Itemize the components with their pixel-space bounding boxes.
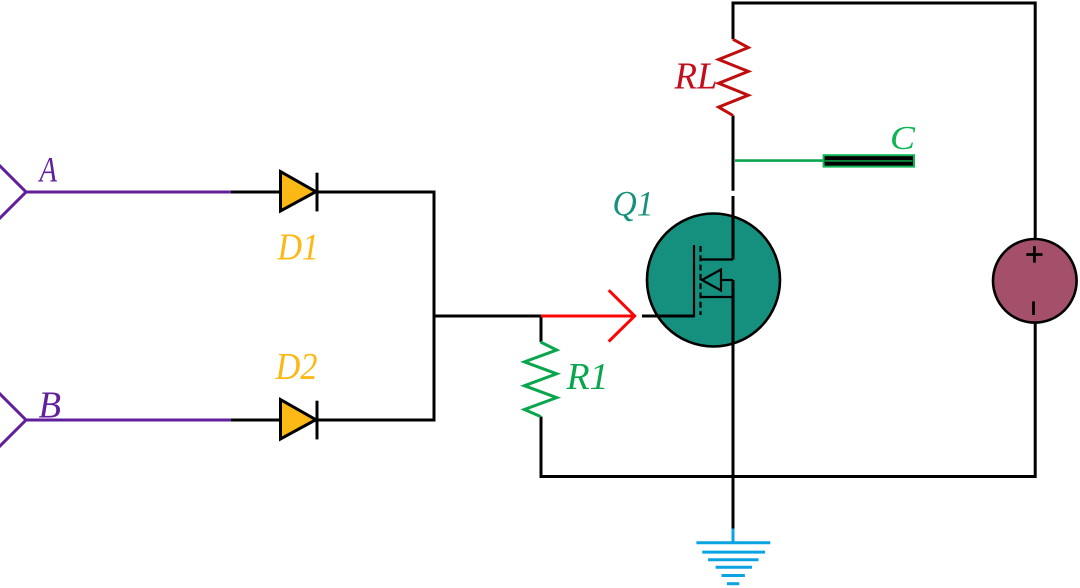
svg-text:C: C [890, 120, 915, 157]
svg-text:D1: D1 [277, 227, 319, 269]
svg-text:R1: R1 [566, 356, 609, 398]
svg-text:Q1: Q1 [613, 184, 654, 224]
svg-text:RL: RL [674, 56, 718, 98]
svg-text:D2: D2 [275, 346, 318, 388]
svg-text:B: B [39, 385, 62, 427]
svg-text:A: A [38, 150, 58, 190]
